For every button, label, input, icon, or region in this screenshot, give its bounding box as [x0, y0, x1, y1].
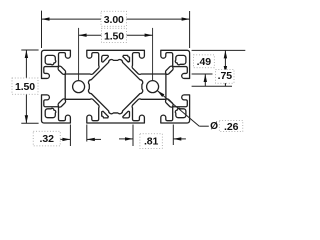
corner void bottom-left — [45, 108, 56, 117]
diameter .26 hole callout — [157, 91, 243, 133]
web void lower-left of core — [102, 111, 109, 118]
svg-text:3.00: 3.00 — [104, 14, 124, 26]
corner void bottom-right — [175, 108, 186, 117]
dimension .49 slot depth — [192, 50, 246, 86]
web void lower-right of core — [123, 111, 130, 118]
right access hole — [147, 81, 159, 93]
dimension 3.00 overall width — [42, 11, 190, 48]
svg-text:Ø: Ø — [210, 121, 218, 132]
corner void top-left — [45, 55, 56, 64]
svg-text:.26: .26 — [224, 121, 239, 133]
extrusion outer profile with T-slots — [42, 50, 190, 123]
svg-text:.49: .49 — [197, 56, 212, 68]
corner void top-right — [175, 55, 186, 64]
dimension 1.50 overall height — [12, 50, 39, 123]
svg-text:1.50: 1.50 — [15, 81, 35, 93]
svg-text:.32: .32 — [40, 133, 55, 145]
svg-text:1.50: 1.50 — [104, 30, 124, 42]
dimension .81 slot width — [119, 125, 186, 149]
dimension 1.50 hole spacing — [79, 28, 153, 81]
svg-text:.75: .75 — [218, 70, 233, 82]
dimension .32 slot opening — [33, 125, 101, 147]
dimension .75 face to center — [192, 70, 234, 87]
left access hole — [73, 81, 85, 93]
web void upper-left of core — [102, 55, 109, 62]
center octagonal core bore — [88, 60, 142, 114]
svg-text:.81: .81 — [144, 136, 159, 148]
web void upper-right of core — [123, 55, 130, 62]
